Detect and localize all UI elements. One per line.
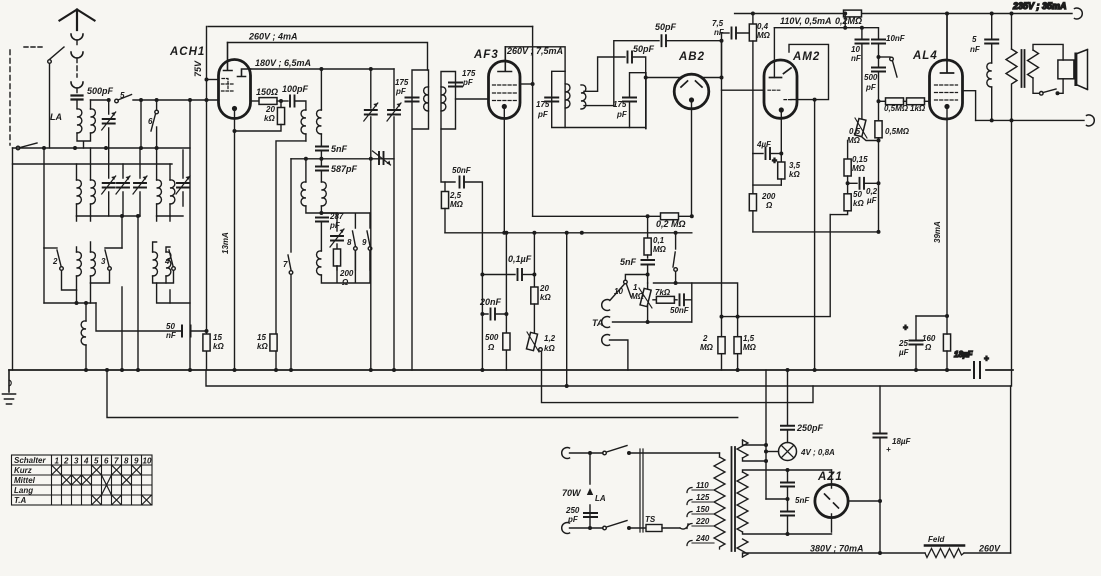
node dots grid line — [107, 98, 111, 102]
resistor 500ohm — [503, 333, 510, 350]
AB2 diode plates — [681, 81, 702, 87]
svg-text:150Ω: 150Ω — [256, 87, 278, 97]
svg-text:4: 4 — [164, 257, 170, 266]
svg-text:10: 10 — [851, 45, 860, 54]
capacitor 50pF (1) — [662, 35, 667, 46]
resistor 20k — [280, 101, 282, 108]
svg-text:+: + — [984, 354, 989, 363]
ACH1 anode1 — [224, 43, 233, 71]
svg-text:1: 1 — [55, 457, 60, 466]
svg-text:20: 20 — [265, 105, 275, 114]
output transformer secondary — [1028, 50, 1039, 78]
primary taps — [687, 488, 692, 546]
svg-text:0,5MΩ: 0,5MΩ — [885, 127, 910, 136]
coil out — [987, 63, 992, 87]
svg-text:3: 3 — [74, 457, 79, 466]
svg-text:MΩ: MΩ — [700, 343, 714, 352]
secondary heater top — [737, 440, 748, 458]
svg-text:LA: LA — [595, 494, 606, 503]
svg-text:1kΩ: 1kΩ — [910, 104, 926, 113]
tap hook — [680, 524, 688, 529]
svg-text:Ω: Ω — [765, 201, 773, 210]
svg-text:+: + — [886, 445, 891, 454]
svg-text:kΩ: kΩ — [264, 114, 275, 123]
antenna transformer — [77, 109, 82, 133]
svg-text:175: 175 — [536, 100, 550, 109]
svg-text:125: 125 — [696, 493, 710, 502]
resistor 150ohm — [251, 100, 260, 102]
trimmer osc — [336, 213, 338, 231]
svg-text:MΩ: MΩ — [743, 343, 757, 352]
switch 2 — [57, 250, 61, 266]
svg-text:pF: pF — [865, 83, 877, 92]
svg-text:4µF: 4µF — [756, 140, 772, 149]
wire osc switch row — [321, 213, 370, 228]
switch tone — [879, 56, 891, 58]
capacitors 5nF psu — [787, 470, 789, 481]
lamp 4V circuit — [766, 451, 779, 453]
capacitor 100pF — [290, 96, 295, 107]
svg-text:µF: µF — [898, 348, 910, 357]
trimmer A1 — [108, 148, 110, 216]
tube ACH1 — [219, 60, 251, 119]
svg-text:50: 50 — [166, 322, 175, 331]
IF1 secondary box — [441, 72, 456, 130]
svg-text:3,5: 3,5 — [789, 161, 801, 170]
trimmer A4 — [182, 150, 184, 206]
svg-text:200: 200 — [761, 192, 776, 201]
svg-text:5: 5 — [120, 91, 125, 100]
AM2 screen loop — [789, 44, 829, 99]
capacitor 0.1uF — [482, 274, 515, 276]
svg-text:175: 175 — [613, 100, 627, 109]
svg-text:1: 1 — [633, 283, 638, 292]
svg-text:7: 7 — [114, 457, 119, 466]
svg-text:9: 9 — [362, 238, 367, 247]
switch 3 — [105, 250, 109, 266]
switch 5 — [91, 99, 109, 101]
svg-text:pF: pF — [616, 110, 628, 119]
svg-text:160: 160 — [922, 334, 936, 343]
svg-text:50nF: 50nF — [670, 306, 690, 315]
svg-text:+: + — [772, 156, 777, 165]
svg-text:T.A: T.A — [14, 496, 27, 505]
tube AL4 — [930, 60, 963, 119]
svg-text:380V ; 70mA: 380V ; 70mA — [810, 544, 864, 554]
potentiometer 0.5M tone — [855, 118, 866, 136]
mains switch pole1 — [562, 448, 570, 459]
wire bus4 — [107, 370, 738, 418]
wire psu mid vertical — [765, 370, 767, 499]
coil B1 — [77, 242, 91, 252]
svg-text:5: 5 — [972, 35, 977, 44]
capacitor 500pF — [872, 68, 885, 72]
svg-text:39mA: 39mA — [933, 221, 942, 243]
wire AB2 grid — [646, 77, 680, 79]
svg-text:nF: nF — [970, 45, 981, 54]
svg-text:5nF: 5nF — [795, 496, 810, 505]
wire 110V row — [774, 27, 877, 29]
svg-text:kΩ: kΩ — [257, 342, 268, 351]
svg-text:MΩ: MΩ — [852, 164, 866, 173]
resistor 20k AF3 — [533, 275, 535, 288]
trimmer A3 — [139, 148, 141, 216]
resistor 0.2M — [661, 213, 679, 220]
AF3 top grid cap — [498, 47, 512, 72]
wire lamp to caps node — [766, 498, 788, 500]
wire TA row — [613, 321, 692, 323]
wire grid AF3 — [456, 98, 489, 100]
resistor 200ohm AM2 — [752, 185, 754, 194]
wire mains pole1 to transformer — [627, 451, 631, 455]
capacitor 175pF IF2 pri — [545, 98, 558, 102]
wire 260V 4mA line — [228, 43, 428, 71]
resistor 0.2M in top bus — [844, 10, 862, 17]
svg-text:0,2MΩ: 0,2MΩ — [835, 16, 862, 26]
svg-text:TA: TA — [592, 318, 603, 328]
switch row1 — [16, 146, 20, 150]
AL4 cathode — [945, 105, 949, 109]
svg-text:AB2: AB2 — [678, 51, 705, 63]
capacitor 50pF (2) — [628, 52, 633, 63]
svg-text:7,5: 7,5 — [712, 19, 724, 28]
trimmer antenna — [108, 100, 110, 148]
svg-text:Ω: Ω — [341, 278, 349, 287]
osc lower coil — [317, 251, 322, 275]
svg-text:4V ; 0,8A: 4V ; 0,8A — [800, 448, 835, 457]
wire right drop — [1011, 120, 1013, 386]
wire AM2 right vertical — [814, 100, 816, 370]
coil IF1 primary — [424, 87, 429, 111]
resistor 7k — [653, 299, 656, 301]
ACH1 cathode — [233, 107, 237, 111]
wire osc verticals to bus — [370, 69, 372, 159]
svg-text:MΩ: MΩ — [847, 136, 861, 145]
secondary heater bottom — [737, 539, 748, 557]
svg-text:0,5MΩ: 0,5MΩ — [884, 104, 909, 113]
capacitor 250pF psu — [787, 430, 789, 443]
svg-text:pF: pF — [329, 221, 341, 230]
wire row 232.8 — [445, 232, 692, 234]
svg-text:8: 8 — [347, 238, 352, 247]
svg-text:100pF: 100pF — [282, 84, 309, 94]
svg-text:500: 500 — [864, 73, 878, 82]
svg-text:1,5: 1,5 — [743, 334, 755, 343]
capacitor 7.5nF — [722, 32, 730, 34]
svg-text:110V, 0,5mA: 110V, 0,5mA — [780, 16, 832, 26]
wire 185 row — [753, 154, 781, 186]
wire box top left — [208, 26, 533, 28]
svg-text:2,5: 2,5 — [449, 191, 462, 200]
svg-text:15: 15 — [257, 333, 266, 342]
svg-text:260V ; 7,5mA: 260V ; 7,5mA — [506, 46, 563, 56]
capacitor 10nF (1) — [861, 28, 863, 38]
resistor 200ohm osc — [336, 244, 338, 249]
trimmer padder — [373, 151, 391, 165]
svg-text:+: + — [903, 323, 908, 332]
switch 4 — [169, 250, 173, 266]
capacitor 175pF IF1 sec — [449, 83, 462, 87]
svg-text:500: 500 — [485, 333, 499, 342]
tube AM2 — [764, 60, 797, 118]
svg-text:5nF: 5nF — [620, 257, 637, 267]
svg-text:175: 175 — [395, 78, 409, 87]
terminal hook bottom right — [1087, 115, 1095, 126]
capacitor 50nF det — [680, 294, 685, 305]
coil A2 — [157, 148, 170, 180]
wire osc row — [291, 158, 394, 160]
svg-text:10: 10 — [614, 287, 623, 296]
svg-text:pF: pF — [395, 87, 407, 96]
AM2 grid dashed — [768, 90, 791, 99]
resistor 2.5M AVC — [444, 182, 446, 192]
svg-text:287: 287 — [329, 212, 344, 221]
svg-text:20nF: 20nF — [479, 297, 502, 307]
wire AM2 grid feed — [722, 33, 765, 90]
svg-text:kΩ: kΩ — [540, 293, 551, 302]
AL4 grids dashed — [935, 85, 958, 100]
wire 18uF2 vertical — [879, 386, 881, 432]
wire grid line to ACH1 — [133, 99, 219, 101]
terminal hook top right — [1075, 8, 1083, 19]
wire AVC row 316.6 — [722, 215, 831, 317]
svg-text:0,1: 0,1 — [653, 236, 665, 245]
svg-text:4: 4 — [83, 457, 89, 466]
svg-text:MΩ: MΩ — [653, 245, 667, 254]
capacitor 587pF — [320, 159, 322, 165]
transformer primary — [719, 453, 721, 457]
resistor 160 ohm cathode — [943, 334, 950, 351]
transformer core — [732, 447, 736, 551]
svg-text:2: 2 — [52, 257, 58, 266]
capacitor 25uF + resistor 160 cathode — [916, 315, 947, 317]
svg-text:0,5: 0,5 — [849, 127, 861, 136]
capacitor 5nF out — [991, 14, 993, 39]
svg-text:LA: LA — [50, 112, 62, 122]
svg-text:AL4: AL4 — [912, 50, 938, 62]
svg-text:nF: nF — [714, 28, 725, 37]
wire to tube — [207, 79, 219, 81]
capacitor 0.2uF — [848, 182, 857, 184]
svg-text:50pF: 50pF — [633, 44, 655, 54]
capacitor 20nF — [482, 275, 488, 371]
svg-text:Ω: Ω — [487, 343, 495, 352]
ACH1 anode2 — [238, 69, 251, 77]
svg-text:235V ; 35mA: 235V ; 35mA — [1012, 1, 1067, 11]
jack TA3 — [602, 335, 610, 346]
AF3 cathode — [502, 105, 506, 109]
oscillator coupling coils — [301, 110, 306, 134]
node cathode bus joins — [914, 368, 918, 372]
node junctions coil row — [75, 301, 79, 305]
capacitor 175pF IF1 primary — [406, 98, 419, 102]
output transformer primary zigzag — [1011, 14, 1013, 50]
svg-text:Lang: Lang — [14, 486, 33, 495]
svg-text:Mittel: Mittel — [14, 476, 36, 485]
svg-text:10nF: 10nF — [886, 34, 906, 43]
resistor 2M — [718, 337, 725, 354]
svg-text:kΩ: kΩ — [853, 199, 864, 208]
svg-text:nF: nF — [166, 331, 177, 340]
AZ1 plates — [825, 494, 839, 508]
AB2 cathode — [690, 98, 694, 102]
capacitor 287pF — [316, 218, 328, 222]
secondary HT — [737, 472, 748, 532]
svg-text:110: 110 — [696, 481, 709, 490]
wire AB2 right — [703, 41, 722, 78]
svg-text:2: 2 — [63, 457, 69, 466]
jack TA1 — [602, 300, 610, 311]
potentiometer 1M volume — [640, 288, 651, 306]
svg-text:kΩ: kΩ — [213, 342, 224, 351]
svg-text:20: 20 — [539, 284, 549, 293]
IF2 box — [552, 71, 646, 128]
coil B2 — [153, 242, 170, 252]
wire output bottom row — [976, 119, 1084, 121]
coil A1 — [77, 148, 91, 180]
svg-text:25: 25 — [898, 339, 908, 348]
wire HT top bus 235V — [735, 13, 1072, 15]
svg-text:0,15: 0,15 — [852, 155, 868, 164]
svg-text:18µF: 18µF — [954, 350, 974, 359]
svg-text:AM2: AM2 — [792, 51, 820, 63]
capacitor 500pF antenna — [72, 96, 83, 100]
svg-text:50: 50 — [853, 190, 862, 199]
AZ1 cathode out — [848, 500, 880, 502]
svg-text:50nF: 50nF — [452, 166, 472, 175]
svg-text:Ω: Ω — [924, 343, 932, 352]
svg-text:15: 15 — [213, 333, 222, 342]
wire AL4 cathode to bus — [946, 316, 948, 370]
svg-text:5nF: 5nF — [331, 144, 348, 154]
lower left coupling coil — [44, 303, 96, 321]
resistor 3.5k — [780, 154, 782, 163]
switch sw-det vertical — [675, 233, 677, 249]
AM2 cathode — [779, 108, 783, 112]
resistor 1.5M — [737, 317, 739, 337]
svg-text:Feld: Feld — [928, 535, 946, 544]
dashed enclosure left — [9, 50, 11, 145]
tube AF3 — [489, 61, 521, 119]
wire bus3 — [542, 370, 814, 403]
switch 7 — [290, 159, 292, 252]
switch 6 — [140, 100, 142, 148]
tube AB2 — [674, 74, 709, 109]
capacitor 50nF left — [96, 303, 207, 331]
wire row 283 — [654, 283, 738, 317]
field coil Feld — [925, 544, 964, 547]
capacitor 18uF in bus — [974, 362, 980, 378]
antenna — [60, 10, 95, 31]
wire 380V row — [743, 553, 1011, 557]
wire osc shield — [276, 141, 306, 370]
svg-text:10: 10 — [143, 457, 152, 466]
coil IF1 secondary — [441, 87, 446, 111]
table X marks TA row — [92, 495, 102, 505]
svg-text:9: 9 — [134, 457, 139, 466]
coil IF2 secondary — [581, 85, 586, 109]
capacitor 5nF osc — [316, 147, 328, 151]
table grid — [12, 455, 153, 505]
wire 260V 7.5mA bracket — [505, 47, 565, 128]
svg-text:pF: pF — [462, 78, 474, 87]
lamp LA + capacitor 250pF mains — [589, 453, 591, 528]
svg-text:220: 220 — [695, 517, 710, 526]
wire main ground bus — [9, 369, 1013, 371]
svg-text:MΩ: MΩ — [757, 31, 771, 40]
IF transformer 1 box — [412, 70, 429, 370]
osc tank coils — [301, 182, 306, 206]
resistor 15k (1) — [203, 334, 210, 351]
wire left drop — [12, 164, 14, 370]
svg-text:200: 200 — [339, 269, 354, 278]
capacitor 50nF AVC — [441, 129, 455, 182]
AL4 plate — [941, 14, 954, 74]
AM2 plate stem — [773, 28, 775, 78]
svg-text:5: 5 — [94, 457, 99, 466]
svg-text:AF3: AF3 — [473, 49, 499, 61]
wire 140 to 0.15M — [847, 141, 849, 160]
capacitor 5nF det — [642, 260, 655, 265]
svg-text:250: 250 — [565, 506, 580, 515]
switch link bars — [640, 449, 643, 532]
AM2 plate — [770, 77, 782, 79]
svg-text:pF: pF — [567, 515, 579, 524]
AF3 grids dashed — [493, 85, 517, 101]
fuse TS — [646, 525, 662, 532]
IF2 taps to detector — [584, 57, 625, 91]
wire drops — [566, 233, 568, 386]
output transformer core — [1022, 50, 1025, 87]
svg-text:MΩ: MΩ — [450, 200, 464, 209]
wire 180V line — [251, 68, 395, 70]
trimmer A2 — [122, 164, 124, 216]
svg-text:260V ; 4mA: 260V ; 4mA — [248, 32, 298, 42]
wire mid row — [77, 215, 184, 217]
ground — [3, 370, 16, 404]
svg-text:500pF: 500pF — [87, 86, 114, 96]
wire to AL4 grid — [925, 100, 930, 102]
AF3 anode wire — [520, 83, 533, 85]
svg-text:175: 175 — [462, 69, 476, 78]
resistor 0.4M — [752, 14, 754, 25]
wire 13mA cathode drop — [234, 131, 236, 370]
svg-text:18µF: 18µF — [892, 437, 912, 446]
wire det to pot — [647, 283, 649, 322]
svg-text:µF: µF — [866, 196, 878, 205]
wire 879 down — [878, 183, 880, 232]
switch 10 arm — [625, 275, 647, 281]
switch LA (antenna) — [24, 46, 44, 48]
svg-text:3: 3 — [101, 257, 106, 266]
AL4 anode out — [963, 91, 976, 121]
switch 8 — [353, 231, 356, 246]
capacitor 175pF IF2 sec — [623, 98, 636, 102]
svg-text:587pF: 587pF — [331, 164, 358, 174]
svg-text:0,2 MΩ: 0,2 MΩ — [656, 219, 686, 229]
connection verticals — [44, 148, 170, 248]
svg-text:50pF: 50pF — [655, 22, 677, 32]
svg-text:7: 7 — [283, 260, 288, 269]
bus dots — [233, 368, 237, 372]
tube AZ1 — [815, 484, 848, 517]
wire row1 — [13, 147, 191, 149]
wire right psu vertical — [1010, 386, 1012, 553]
resistor 0.1M — [647, 216, 649, 238]
drops to bus — [77, 100, 191, 370]
svg-text:70W: 70W — [562, 488, 582, 498]
capacitor 5nF psu lower — [781, 512, 794, 516]
